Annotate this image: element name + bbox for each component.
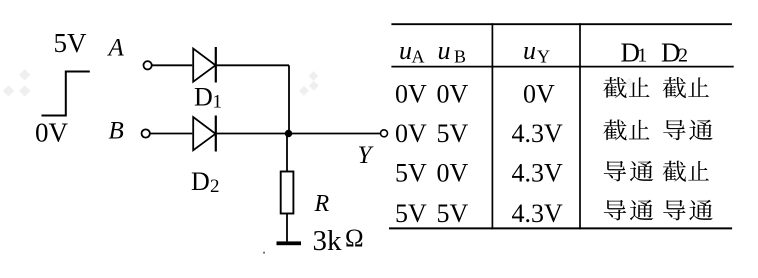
svg-text:5V: 5V [395, 159, 427, 188]
svg-text:R: R [314, 191, 330, 217]
svg-text:u: u [438, 36, 451, 65]
svg-text:Y: Y [537, 47, 550, 67]
svg-text:A: A [107, 35, 125, 62]
svg-text:4.3V: 4.3V [512, 199, 564, 228]
svg-text:B: B [109, 118, 124, 145]
svg-text:5V: 5V [395, 199, 427, 228]
svg-text:4.3V: 4.3V [512, 159, 564, 188]
svg-text:5V: 5V [437, 119, 469, 148]
svg-text:A: A [412, 47, 425, 67]
svg-text:2: 2 [678, 45, 688, 67]
svg-text:Y: Y [358, 142, 375, 169]
svg-text:4.3V: 4.3V [512, 119, 564, 148]
svg-text:5V: 5V [437, 199, 469, 228]
svg-text:1: 1 [637, 45, 647, 67]
svg-text:B: B [454, 47, 466, 67]
svg-text:0V: 0V [35, 118, 69, 148]
svg-text:0V: 0V [437, 79, 469, 108]
svg-text:D: D [191, 167, 210, 196]
svg-text:D: D [194, 83, 213, 112]
svg-text:5V: 5V [54, 28, 88, 58]
svg-text:0V: 0V [437, 159, 469, 188]
svg-text:1: 1 [213, 92, 223, 113]
svg-text:Ω: Ω [345, 225, 364, 252]
svg-text:u: u [523, 36, 536, 65]
svg-text:0V: 0V [523, 79, 555, 108]
svg-text:0V: 0V [395, 119, 427, 148]
svg-text:0V: 0V [395, 79, 427, 108]
svg-text:u: u [399, 36, 412, 65]
svg-text:2: 2 [210, 176, 220, 197]
svg-text:3k: 3k [313, 225, 343, 257]
